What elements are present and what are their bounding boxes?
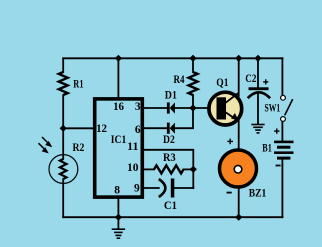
wire R1 bottom to node A: [62, 95, 64, 159]
wire pin 6 to D2: [144, 127, 167, 129]
wire top rail: [63, 57, 282, 59]
wire pin 11 to RC node: [144, 150, 194, 170]
junction dot R4/top rail: [189, 55, 196, 62]
wire right rail top (corner to SW1): [281, 58, 283, 95]
svg-text:12: 12: [96, 123, 107, 135]
svg-text:R3: R3: [163, 152, 176, 164]
svg-text:IC1: IC1: [111, 134, 127, 146]
wire pin 8 to bottom rail: [117, 199, 119, 217]
svg-text:Q1: Q1: [216, 77, 228, 89]
wire R3 to node C: [184, 168, 194, 170]
svg-text:16: 16: [113, 101, 124, 113]
switch SW1: [281, 95, 286, 100]
svg-text:6: 6: [135, 124, 141, 136]
resistor R2 (LDR): [60, 159, 67, 179]
node C junction dot: [190, 166, 197, 173]
wire C1 to node C vertical: [174, 187, 193, 189]
C2 plus sign: [263, 79, 268, 84]
svg-text:C1: C1: [164, 200, 177, 212]
wire pin 9 to C1: [144, 187, 159, 189]
diode D2: [167, 123, 170, 134]
wire R2 bottom to bottom rail: [62, 179, 64, 217]
svg-text:9: 9: [134, 183, 140, 195]
svg-text:8: 8: [114, 185, 120, 197]
node B junction dot: [189, 104, 196, 111]
svg-text:R2: R2: [73, 142, 85, 154]
junction dot BZ1/bottom rail: [235, 214, 242, 221]
svg-text:D2: D2: [163, 134, 175, 146]
svg-text:C2: C2: [245, 73, 256, 85]
LDR arrow 2: [39, 143, 45, 149]
svg-text:R1: R1: [73, 78, 83, 90]
wire pin 3 to D1: [144, 107, 167, 109]
BZ1 plus sign: [227, 139, 233, 145]
wire R4 bottom lead to node B: [192, 95, 194, 108]
svg-text:SW1: SW1: [265, 103, 281, 115]
op-amp U1 : IC1 box: [95, 99, 143, 197]
wire C2 top lead: [257, 58, 259, 87]
wire B1 to bottom rail: [281, 159, 283, 217]
wire node C down to C1: [192, 169, 194, 188]
svg-text:B1: B1: [262, 142, 272, 154]
wire C2 to ground: [257, 94, 259, 125]
LDR arrow 1: [42, 137, 48, 143]
battery B1: [274, 141, 293, 160]
wire Q1 collector to top rail: [238, 58, 240, 96]
wire pin 16 to top rail: [117, 58, 119, 97]
junction dot C2/top rail: [254, 55, 261, 62]
svg-text:BZ1: BZ1: [249, 188, 267, 200]
diode D1: [167, 102, 170, 113]
ground (C2): [251, 125, 264, 133]
wire left rail upper (top rail to R1): [62, 58, 64, 72]
capacitor C1: [159, 179, 166, 197]
buzzer BZ1: [220, 150, 257, 187]
junction dot pin8/bottom rail: [115, 214, 122, 221]
svg-text:3: 3: [135, 101, 141, 113]
svg-text:R4: R4: [174, 74, 185, 86]
wire node A to pin 12: [63, 127, 94, 129]
resistor R3: [154, 165, 184, 173]
svg-text:10: 10: [127, 162, 139, 174]
wire bottom rail: [63, 216, 282, 218]
junction dot Q1 collector/top rail: [235, 55, 242, 62]
wire D1 to node B: [175, 107, 193, 109]
svg-text:11: 11: [127, 141, 139, 153]
svg-text:D1: D1: [165, 90, 177, 102]
resistor R1: [59, 72, 68, 95]
capacitor C2: [249, 87, 269, 90]
wire pin 10 to R3: [144, 168, 155, 170]
wire Q1 emitter to BZ1: [238, 120, 240, 151]
ground (bottom, pin 8): [117, 217, 119, 229]
node A junction dot: [60, 125, 67, 132]
resistor R4: [189, 72, 198, 95]
wire D2 to node B vertical: [175, 108, 193, 128]
wire node B to Q1 base: [193, 107, 210, 109]
junction dot pin16/top rail: [115, 55, 122, 62]
transistor Q1: [209, 92, 242, 125]
wire R4 top lead: [192, 58, 194, 72]
wire SW1 to B1: [281, 122, 283, 141]
B1 plus sign: [274, 128, 279, 133]
wire BZ1 to bottom rail: [238, 187, 240, 217]
BZ1 minus sign: [227, 192, 232, 194]
B1 minus sign: [276, 165, 281, 167]
